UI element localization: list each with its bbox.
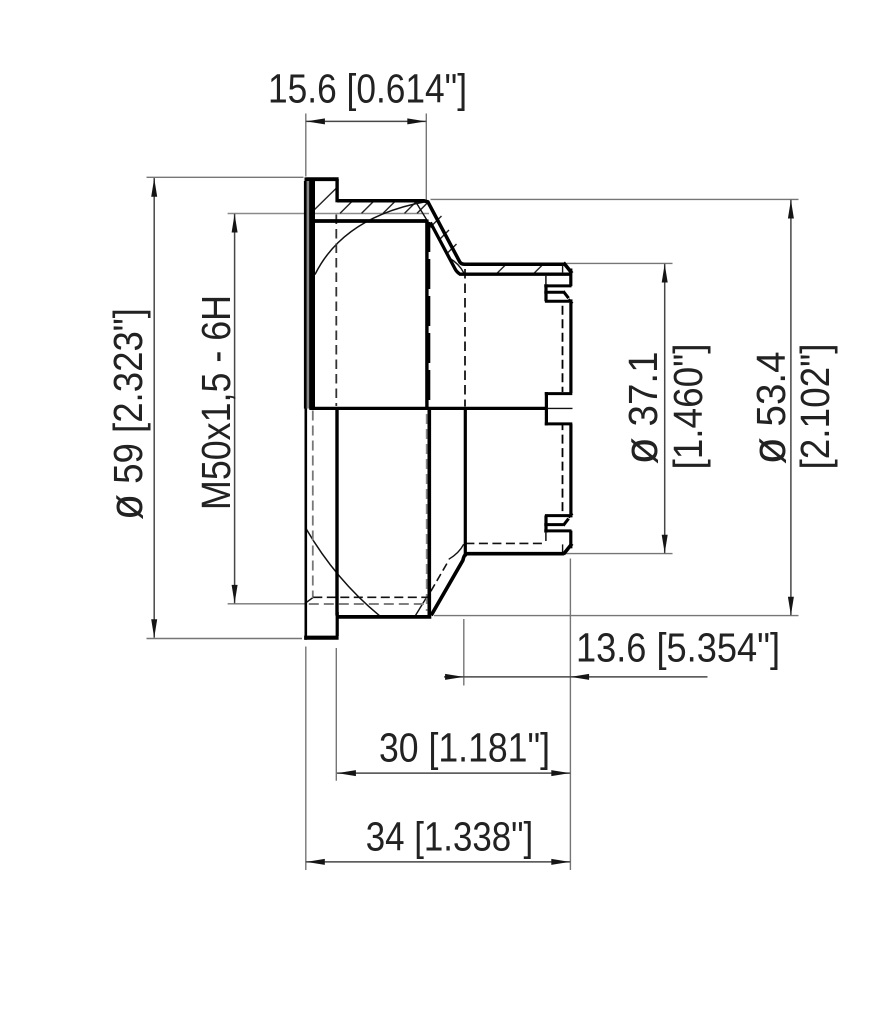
svg-text:M50x1,5 - 6H: M50x1,5 - 6H (193, 295, 239, 510)
svg-text:ø 37.1: ø 37.1 (614, 352, 667, 465)
svg-text:[2.102"]: [2.102"] (792, 344, 838, 470)
svg-text:ø 53.4: ø 53.4 (742, 352, 795, 465)
svg-text:15.6 [0.614"]: 15.6 [0.614"] (268, 66, 467, 112)
svg-text:[1.460"]: [1.460"] (665, 344, 711, 470)
svg-text:ø 59 [2.323"]: ø 59 [2.323"] (99, 308, 152, 520)
svg-text:13.6 [5.354"]: 13.6 [5.354"] (576, 625, 780, 671)
svg-text:34 [1.338"]: 34 [1.338"] (366, 814, 534, 860)
svg-text:30 [1.181"]: 30 [1.181"] (379, 725, 550, 771)
